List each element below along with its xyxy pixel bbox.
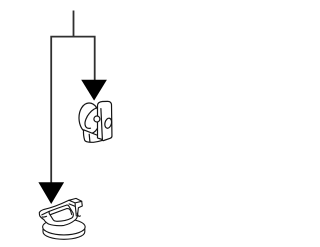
block top face edges bbox=[69, 200, 82, 206]
node arrow upper bbox=[81, 80, 107, 101]
bracket hole bbox=[104, 117, 113, 128]
base foot bbox=[83, 130, 102, 143]
collar cap band edge bbox=[42, 211, 50, 215]
foot edge line bbox=[88, 134, 91, 142]
block front bottom edge bbox=[69, 204, 75, 206]
hook tail curl bbox=[77, 213, 80, 216]
roller wheel bbox=[78, 103, 100, 134]
lower clamp assembly bbox=[39, 198, 85, 239]
node arrow lower bbox=[38, 182, 64, 204]
wire top stem bbox=[73, 11, 75, 37]
bracket body bbox=[98, 101, 112, 140]
roller rim arc bbox=[85, 108, 97, 129]
hook inner edge bbox=[74, 207, 77, 216]
slot inner wall line bbox=[50, 209, 71, 215]
clamp slot bbox=[49, 205, 73, 221]
clamp collar bbox=[39, 198, 82, 225]
wire leader lines bbox=[51, 11, 94, 185]
bracket crease edge bbox=[101, 109, 103, 140]
wire branch bbox=[51, 37, 94, 184]
collar cap lower curl bbox=[42, 215, 46, 218]
upper roller assembly bbox=[78, 101, 112, 142]
base cylinder bbox=[43, 219, 86, 239]
shaft boss circle bbox=[94, 116, 100, 122]
